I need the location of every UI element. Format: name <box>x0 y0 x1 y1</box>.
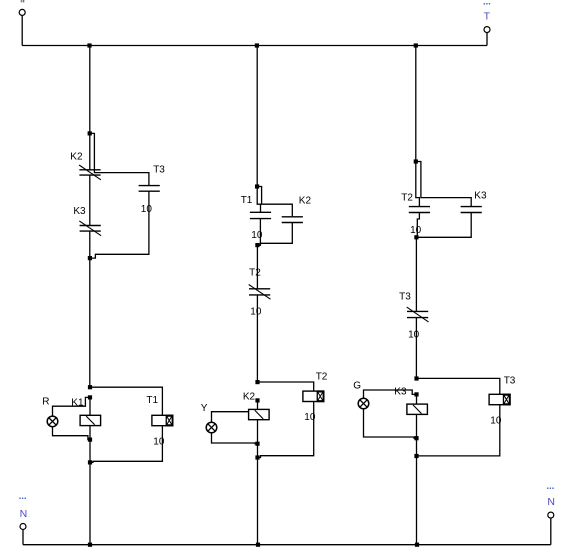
wire timer contact T1 down <box>257 219 260 246</box>
contact K2 normally-closed <box>79 165 101 180</box>
junction T3 return <box>414 454 418 458</box>
wire riser to terminal T <box>486 33 488 46</box>
wire right branch to output group <box>415 318 417 379</box>
wire coil K2 down <box>257 420 259 444</box>
dots above net label T <box>484 3 491 5</box>
wire lamp Y top <box>212 412 249 423</box>
contact K3 normally-open <box>461 207 482 213</box>
wire to timer contact T2 <box>256 245 258 288</box>
wire right branch to bottom bus <box>416 456 418 545</box>
wire bottom bus <box>23 544 551 546</box>
terminal top-left (phase) <box>19 9 25 15</box>
junction top bus / right branch <box>414 43 418 47</box>
contact K2 normally-open <box>282 217 303 223</box>
terminal T top-right <box>484 27 490 33</box>
wire contact K2 return <box>257 223 292 246</box>
wire branch to timer T3 <box>417 378 500 394</box>
svg-text:T1: T1 <box>241 195 253 206</box>
svg-text:N: N <box>20 508 28 520</box>
lamp R <box>47 416 58 427</box>
junction lamp G / coil K3 bottom <box>414 436 418 440</box>
dots above net label N right <box>547 488 554 490</box>
svg-text:N: N <box>547 496 555 508</box>
svg-text:T2: T2 <box>316 371 328 382</box>
junction lamp R / coil K1 bottom <box>88 438 92 442</box>
node left branch lower junction <box>88 256 92 260</box>
terminal N bottom-right <box>548 512 554 518</box>
wire junction to coil K3 <box>416 394 418 404</box>
wire tap to timer contact T3 <box>90 133 149 185</box>
node middle branch upper junction <box>255 184 259 188</box>
svg-text:K2: K2 <box>299 196 312 207</box>
wire lamp G top <box>364 390 417 398</box>
wire lamp R top <box>53 397 91 416</box>
wire timer T2 return <box>258 402 314 458</box>
svg-text:10: 10 <box>410 225 422 236</box>
wire lamp Y bottom <box>212 433 258 444</box>
junction lamp Y / coil K2 top <box>255 398 259 402</box>
svg-text:10: 10 <box>153 436 165 447</box>
wire junction to timer contact T2 <box>416 162 420 207</box>
node right branch second junction <box>414 235 418 239</box>
svg-text:K2: K2 <box>243 392 256 403</box>
timer contact T2 <box>409 207 430 213</box>
node left branch upper junction <box>88 131 92 135</box>
svg-text:K3: K3 <box>394 387 407 398</box>
clipped net label above top-left terminal <box>21 0 25 2</box>
junction T2 return <box>255 455 259 459</box>
timer contact T1 <box>250 212 271 218</box>
dots above net label N left <box>19 498 26 500</box>
svg-text:G: G <box>353 380 361 391</box>
wire from terminal N right <box>550 518 552 545</box>
wire branch to timer T1 <box>90 387 162 415</box>
junction top bus / middle branch <box>255 43 259 47</box>
wire left branch from top bus <box>89 46 91 134</box>
wire middle branch to bottom bus <box>257 458 259 545</box>
wire lamp R bottom <box>53 427 91 440</box>
wire timer T3 return <box>417 405 500 456</box>
svg-text:K1: K1 <box>71 398 84 409</box>
svg-text:10: 10 <box>408 329 420 340</box>
junction top bus / left branch <box>87 43 91 47</box>
timer contact T2 normally-closed <box>249 285 271 300</box>
relay coil K1 <box>80 415 101 425</box>
wire contact K3 return <box>416 213 471 238</box>
junction bottom bus / right branch <box>415 543 419 547</box>
wire middle branch to output group <box>256 295 258 382</box>
contact K3 normally-closed <box>79 221 101 236</box>
wire to timer contact T3 <box>415 237 417 311</box>
wire tap to contact K3 <box>416 162 471 207</box>
wire from top-left terminal to top bus <box>21 15 23 45</box>
svg-text:T3: T3 <box>399 292 411 303</box>
relay coil K3 <box>407 404 428 414</box>
svg-text:K3: K3 <box>474 191 487 202</box>
wire junction to timer contact T1 <box>257 187 260 213</box>
wire middle branch from top bus <box>256 46 258 187</box>
wire tap to contact K2 <box>257 187 292 217</box>
terminal N bottom-left <box>20 524 26 530</box>
wire timer contact T3 to lower junction <box>90 191 149 258</box>
wire junction to coil K2 <box>257 400 259 409</box>
lamp G <box>358 398 369 409</box>
wire to T2 return junction <box>257 444 259 458</box>
junction lamp G / coil K3 top <box>414 392 418 396</box>
wire junction to coil K1 <box>89 397 91 415</box>
svg-text:T2: T2 <box>249 268 261 279</box>
svg-text:R: R <box>42 397 49 408</box>
wire left branch to output group <box>89 258 91 387</box>
wire timer contact T2 down <box>417 213 419 238</box>
node right branch upper junction <box>414 159 418 163</box>
wire left branch to bottom bus <box>89 462 91 544</box>
svg-text:T1: T1 <box>146 395 158 406</box>
wire to T3 return junction <box>416 438 418 456</box>
svg-text:10: 10 <box>141 204 153 215</box>
wire to T1 return junction <box>89 440 91 463</box>
svg-text:K3: K3 <box>73 206 86 217</box>
wire from terminal N left <box>22 530 24 545</box>
timer contact T3 <box>139 186 160 192</box>
relay coil K2 <box>249 409 270 419</box>
timer T2 <box>303 390 325 402</box>
svg-text:T3: T3 <box>153 164 165 175</box>
wire coil K3 down <box>416 414 418 438</box>
svg-text:T: T <box>484 10 491 22</box>
svg-text:K2: K2 <box>70 151 83 162</box>
junction middle group branch T2 <box>255 380 259 384</box>
svg-text:T2: T2 <box>401 192 413 203</box>
junction lamp Y / coil K2 bottom <box>255 442 259 446</box>
junction lamp R / coil K1 top <box>88 395 92 399</box>
junction right group branch T3 <box>414 376 418 380</box>
wire contact K3 to lower junction <box>89 231 91 258</box>
svg-text:Y: Y <box>201 403 208 414</box>
svg-text:10: 10 <box>250 307 262 318</box>
svg-text:10: 10 <box>251 230 263 241</box>
wire junction to contact K2 <box>89 133 91 169</box>
wire top bus <box>22 45 487 47</box>
junction T1 return <box>88 460 92 464</box>
svg-text:T3: T3 <box>504 375 516 386</box>
wire coil K1 to junction <box>89 426 91 440</box>
wire branch to timer T2 <box>258 382 314 391</box>
lamp Y <box>206 422 217 433</box>
timer contact T3 normally-closed <box>407 307 429 322</box>
node middle branch second junction <box>255 243 259 247</box>
wire contact K2 to contact K3 <box>89 175 91 225</box>
timer T3 <box>489 394 511 406</box>
wire right branch from top bus <box>415 46 417 162</box>
junction bottom bus / left branch <box>88 543 92 547</box>
junction bottom bus / middle branch <box>256 543 260 547</box>
timer T1 <box>152 415 174 427</box>
wire lamp G bottom <box>364 409 417 438</box>
wire timer T1 return <box>90 426 163 463</box>
junction left group branch T1 <box>88 385 92 389</box>
